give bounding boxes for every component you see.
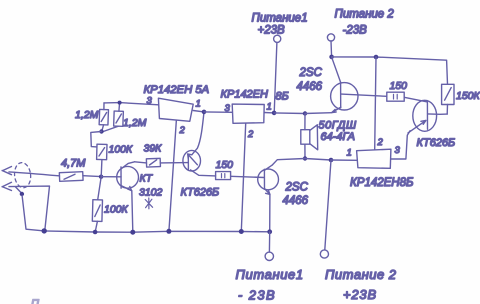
svg-text:3102: 3102 bbox=[139, 187, 163, 199]
svg-text:1: 1 bbox=[267, 102, 272, 113]
wire R1.2M right bottom bbox=[102, 126, 118, 132]
junction rail Q3 emitter bbox=[267, 229, 272, 234]
transistor Q1 КТ3102 bbox=[101, 162, 138, 191]
label +23В top bbox=[258, 25, 286, 37]
speaker BA1 50ГДШ bbox=[301, 114, 318, 159]
ground rail bbox=[44, 231, 270, 232]
resistor R 39K bbox=[146, 158, 160, 167]
svg-text:2: 2 bbox=[247, 129, 254, 140]
label +23В bottom bbox=[343, 287, 377, 302]
transistor Q5 КТ626Б right bbox=[408, 100, 447, 133]
wire R1.2M left bottom bbox=[102, 125, 104, 132]
label -23В top bbox=[343, 25, 368, 37]
pin 1 label U2 bbox=[267, 102, 272, 113]
label КТ626Б right bbox=[417, 137, 456, 149]
input dashed circle bbox=[13, 162, 32, 189]
svg-text:4,7М: 4,7М bbox=[61, 158, 86, 170]
label 4466 bottom bbox=[283, 195, 309, 207]
svg-text:КТ: КТ bbox=[140, 173, 154, 185]
regulator U3 КР142ЕН8Б bottom bbox=[357, 149, 391, 168]
value 100К upper bbox=[109, 144, 134, 156]
value 39К bbox=[144, 143, 163, 155]
wire R100K lower to ground rail bbox=[95, 221, 97, 232]
wire top rail bbox=[332, 57, 448, 84]
label 2SC bottom bbox=[285, 182, 309, 194]
regulator U2 КР142ЕН8Б top bbox=[232, 104, 264, 123]
wire U3 pin3 to Q5 emitter bbox=[391, 131, 410, 159]
label КР142ЕН bbox=[221, 89, 269, 101]
terminal Питание1 +23В bbox=[274, 35, 281, 42]
svg-text:1: 1 bbox=[196, 99, 201, 110]
junction rail shield bbox=[42, 228, 47, 233]
wire node A down bbox=[98, 177, 102, 200]
wire U1 pin1 to node C bbox=[193, 111, 204, 112]
pin 2 label U3 bbox=[377, 137, 384, 148]
resistor R 150К bbox=[442, 84, 454, 104]
svg-text:50ГДШ: 50ГДШ bbox=[319, 120, 357, 132]
label Питание 2 top bbox=[335, 9, 395, 21]
wire node C to U2 pin3 bbox=[204, 111, 232, 113]
junction rail U1 pin2 bbox=[166, 229, 171, 234]
wire node E to Q4 emitter bbox=[305, 112, 332, 115]
wire input bottom shield bbox=[9, 186, 50, 229]
svg-text:3: 3 bbox=[225, 103, 231, 114]
wire node F to Q3 collector bbox=[272, 159, 305, 165]
pin 1 label U3 bbox=[347, 148, 352, 159]
svg-text:3: 3 bbox=[395, 145, 401, 156]
wire R150K bottom to Q5 collector bbox=[446, 105, 448, 115]
stray mark П bottom left bbox=[31, 298, 39, 304]
svg-text:Питание 2: Питание 2 bbox=[335, 9, 395, 21]
regulator U1 КР142ЕН5А bbox=[158, 98, 193, 121]
label Питание 2 bottom bbox=[325, 267, 397, 282]
star mark bbox=[145, 198, 152, 209]
node B junction of 1.2M pair bbox=[99, 129, 103, 133]
wire R100K upper to node A bbox=[100, 160, 103, 177]
svg-text:-23В: -23В bbox=[343, 25, 368, 37]
label -23В bottom bbox=[238, 288, 276, 303]
node E speaker top bbox=[303, 111, 307, 115]
transistor Q2 КТ626Б left bbox=[183, 150, 216, 176]
label КТ 3102 bbox=[139, 173, 163, 199]
junction rail 100K bbox=[93, 230, 98, 235]
wire R4.7M to node A bbox=[83, 175, 101, 178]
value 100К lower bbox=[104, 204, 129, 216]
wire R150 left to Q3 base bbox=[231, 176, 265, 177]
wire node G down to terminal4 bbox=[325, 160, 331, 250]
svg-text:3: 3 bbox=[147, 96, 153, 107]
svg-text:100К: 100К bbox=[109, 144, 134, 156]
svg-text:2: 2 bbox=[377, 137, 384, 148]
resistor R 150 right bbox=[387, 92, 404, 101]
svg-text:КР142ЕН: КР142ЕН bbox=[221, 89, 269, 101]
wire node I to U3 pin2 bbox=[375, 57, 376, 149]
wire terminal1 down to node D bbox=[274, 42, 277, 113]
label Питание1 top bbox=[252, 13, 308, 25]
svg-text:64-4ГА: 64-4ГА bbox=[321, 131, 355, 143]
value 4,7М bbox=[61, 158, 86, 170]
value 150 left bbox=[216, 159, 234, 171]
svg-text:4466: 4466 bbox=[297, 81, 323, 93]
label 50ГДШ bbox=[319, 120, 357, 132]
svg-text:1: 1 bbox=[347, 148, 352, 159]
svg-text:100К: 100К bbox=[104, 204, 129, 216]
svg-text:150: 150 bbox=[390, 80, 408, 92]
svg-text:Питание1: Питание1 bbox=[252, 13, 308, 25]
svg-text:КР142ЕН8Б: КР142ЕН8Б bbox=[350, 177, 414, 189]
label Питание1 bottom bbox=[236, 267, 304, 282]
svg-text:П: П bbox=[31, 298, 39, 304]
label 64-4ГА bbox=[321, 131, 355, 143]
svg-text:39К: 39К bbox=[144, 143, 163, 155]
node D bbox=[272, 111, 277, 116]
label 8Б bbox=[276, 91, 289, 103]
wire R1.2M left top bbox=[103, 103, 105, 110]
svg-text:КТ626Б: КТ626Б bbox=[181, 187, 220, 199]
svg-text:1,2М: 1,2М bbox=[75, 109, 99, 121]
wire U1 pin2 to rail bbox=[169, 121, 176, 231]
wire input top to R 4.7M bbox=[9, 172, 60, 176]
svg-text:- 23В: - 23В bbox=[238, 288, 276, 303]
terminal Питание2 +23В bbox=[320, 250, 328, 258]
wire node G to U3 pin1 bbox=[331, 159, 357, 161]
svg-text:2SC: 2SC bbox=[285, 182, 309, 194]
svg-text:+23В: +23В bbox=[258, 25, 286, 37]
resistor R 100K lower bbox=[92, 200, 102, 222]
wire U2 pin2 to rail bbox=[241, 123, 245, 231]
pin 1 label U1 bbox=[196, 99, 201, 110]
terminal Питание2 -23В bbox=[327, 34, 334, 41]
resistor R 1.2M left bbox=[99, 109, 108, 124]
node I top rail bbox=[374, 55, 379, 60]
value 1,2М left bbox=[75, 109, 99, 121]
wire stub to shield node bbox=[16, 187, 22, 194]
svg-text:2: 2 bbox=[179, 125, 186, 136]
transistor Q3 2SC4466 bottom bbox=[258, 165, 279, 195]
wire terminal2 down bbox=[330, 41, 333, 57]
node shield blob bbox=[20, 192, 24, 196]
wire node F to node G bbox=[305, 159, 331, 161]
label 2SC top bbox=[299, 67, 323, 79]
junction rail U2 pin2 bbox=[239, 229, 244, 234]
transistor Q4 2SC4466 top bbox=[331, 57, 387, 112]
resistor R 100K upper bbox=[97, 144, 107, 160]
svg-text:4466: 4466 bbox=[283, 195, 309, 207]
wire R39K to Q2 base bbox=[160, 162, 188, 164]
pin 2 label U2 bbox=[247, 129, 254, 140]
node H top rail left bbox=[329, 55, 334, 60]
svg-text:КР142ЕН 5А: КР142ЕН 5А bbox=[144, 84, 210, 96]
svg-text:2SC: 2SC bbox=[299, 67, 323, 79]
wire R150 right to Q5 base bbox=[404, 97, 427, 102]
svg-text:КТ626Б: КТ626Б bbox=[417, 137, 456, 149]
svg-text:8Б: 8Б bbox=[276, 91, 289, 103]
wire Q1 collector to R39K bbox=[135, 162, 147, 163]
pin 3 label U1 bbox=[147, 96, 153, 107]
node G bbox=[329, 158, 334, 163]
wire Q1 emitter to rail bbox=[132, 191, 133, 232]
value 150 right bbox=[390, 80, 408, 92]
resistor R 1.2M right bbox=[114, 111, 124, 126]
node F speaker bottom bbox=[303, 156, 307, 160]
wire R1.2M right top bbox=[118, 103, 121, 112]
label КР142ЕН8Б bbox=[350, 177, 414, 189]
wire node B jog to R 100K upper bbox=[91, 132, 102, 147]
wire Q2 collector up to node C bbox=[192, 112, 204, 155]
input jack arrow top bbox=[2, 167, 11, 175]
pin 3 label U2 bbox=[225, 103, 231, 114]
svg-text:150: 150 bbox=[216, 159, 234, 171]
resistor R 150 left bbox=[216, 172, 231, 180]
label КТ626Б left bbox=[181, 187, 220, 199]
junction rail Q1 bbox=[130, 230, 135, 235]
input jack arrow bottom bbox=[2, 182, 11, 190]
svg-text:+23В: +23В bbox=[343, 287, 377, 302]
terminal Питание1 -23В bbox=[265, 232, 273, 261]
pin 3 label U3 bbox=[395, 145, 401, 156]
value 1,2М right bbox=[123, 117, 147, 129]
node C bbox=[202, 110, 207, 115]
wire Q3 emitter to rail bbox=[269, 194, 271, 231]
wire shield node down bbox=[22, 196, 43, 231]
svg-text:150К: 150К bbox=[456, 90, 480, 102]
value 150К bbox=[456, 90, 480, 102]
label 4466 top bbox=[297, 81, 323, 93]
svg-text:1,2М: 1,2М bbox=[123, 117, 147, 129]
wire top bus to regulator U1 pin3 bbox=[104, 103, 159, 105]
svg-text:Питание1: Питание1 bbox=[236, 267, 304, 282]
wire node D to speaker top bbox=[274, 112, 305, 115]
node A bbox=[99, 175, 103, 179]
label КР142ЕН 5А bbox=[144, 84, 210, 96]
node top of 1.2M right bbox=[118, 101, 122, 105]
wire U2 pin1 to node D bbox=[264, 112, 274, 114]
svg-text:Питание 2: Питание 2 bbox=[325, 267, 397, 282]
resistor R 4.7M bbox=[59, 172, 83, 182]
pin 2 label U1 bbox=[179, 125, 186, 136]
